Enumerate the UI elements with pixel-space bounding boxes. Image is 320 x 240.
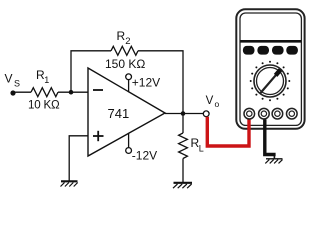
svg-text:o: o: [215, 99, 220, 109]
multimeter body inner outline: [240, 13, 301, 125]
wire Vs to R1: [13, 91, 31, 93]
multimeter terminal 1: [244, 108, 255, 119]
multimeter terminal 4: [287, 108, 298, 119]
svg-text:R: R: [117, 29, 126, 43]
wire op-amp output to Vo: [165, 113, 203, 115]
wire red probe lead Vo to meter terminal 1: [207, 117, 249, 146]
multimeter button 4: [286, 46, 298, 55]
ground (black probe): [265, 159, 282, 164]
multimeter terminal 3: [272, 108, 283, 119]
label R2: [117, 29, 131, 47]
multimeter dial ticks: [250, 61, 291, 102]
op-amp minus input symbol: [93, 89, 103, 91]
svg-text:V: V: [5, 72, 13, 86]
resistor R1: [31, 88, 58, 97]
wire black probe stub: [273, 155, 275, 159]
multimeter terminal 2: [259, 108, 270, 119]
label R1: [36, 68, 49, 85]
svg-text:10 KΩ: 10 KΩ: [28, 99, 60, 112]
multimeter dial inner ring: [257, 68, 284, 95]
node output junction dot: [181, 111, 186, 116]
label RL: [191, 136, 204, 154]
node Vs terminal dot: [10, 90, 15, 95]
node junction R1/R2/inverting input: [69, 90, 74, 95]
wire output node down to RL: [182, 114, 184, 134]
node +12V open terminal: [126, 74, 132, 80]
resistor R2: [111, 46, 138, 55]
wire feedback left vertical up: [71, 51, 111, 92]
label Vo: [206, 95, 220, 109]
ground (RL): [173, 183, 192, 188]
wire non-inverting input to ground: [69, 136, 88, 181]
multimeter dial pointer black tip: [276, 68, 283, 76]
resistor RL: [179, 133, 188, 159]
node Vo open terminal: [203, 111, 209, 117]
multimeter display window bottom bar: [240, 40, 301, 43]
svg-text:L: L: [199, 144, 204, 154]
svg-text:+12V: +12V: [132, 76, 160, 90]
wire +12V supply stub: [128, 80, 130, 92]
svg-text:S: S: [14, 79, 20, 89]
ground (non-inverting input): [61, 181, 78, 186]
svg-text:741: 741: [108, 106, 130, 121]
svg-text:150 KΩ: 150 KΩ: [105, 57, 145, 71]
svg-text:-12V: -12V: [132, 149, 157, 163]
op-amp U1 741 triangle: [88, 68, 165, 156]
wire feedback right and down to output node: [138, 51, 183, 114]
node -12V open terminal: [126, 148, 132, 154]
wire -12V supply stub: [128, 134, 130, 148]
multimeter body outer outline: [236, 9, 304, 129]
multimeter dial pointer: [260, 68, 283, 95]
op-amp plus input symbol: [93, 131, 104, 141]
node Vs source label: [5, 72, 21, 89]
multimeter button 2: [257, 46, 269, 55]
svg-text:V: V: [206, 95, 214, 107]
multimeter dial outer ring: [254, 65, 286, 97]
wire black probe lead meter terminal 2 to ground: [265, 120, 276, 155]
wire R1 to op-amp inverting input: [58, 91, 88, 93]
svg-text:2: 2: [125, 36, 130, 47]
wire RL to ground: [182, 159, 184, 183]
svg-text:1: 1: [44, 75, 49, 85]
multimeter button 1: [243, 46, 255, 55]
multimeter button 3: [272, 46, 284, 55]
